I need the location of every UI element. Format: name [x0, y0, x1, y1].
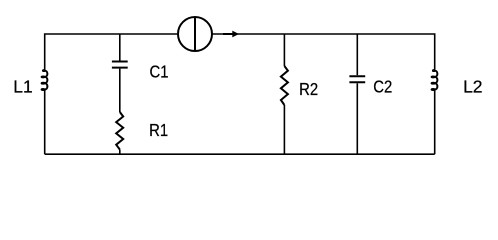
capacitor C2: [349, 76, 365, 82]
svg-text:C1: C1: [150, 62, 169, 82]
wire C2 branch top: [356, 34, 358, 75]
wire R1 bottom: [119, 150, 121, 155]
wire right-lower: [434, 90, 436, 155]
svg-text:L2: L2: [463, 77, 482, 97]
inductor L2: [432, 70, 438, 90]
svg-text:L1: L1: [13, 77, 32, 97]
wire R2 branch top: [283, 34, 285, 66]
capacitor C1: [112, 62, 128, 68]
svg-text:R1: R1: [149, 120, 168, 140]
wire top-right segment: [212, 34, 435, 71]
wire R2 bottom: [283, 105, 285, 154]
wire C2 bottom: [356, 83, 358, 154]
current source I1: [178, 17, 212, 51]
resistor R1: [116, 112, 123, 150]
wire top-left segment: [45, 34, 178, 71]
resistor R2: [281, 66, 288, 105]
inductor L1: [42, 70, 48, 90]
wire C1 to R1: [119, 69, 121, 112]
svg-text:C2: C2: [373, 76, 392, 96]
wire bottom: [45, 153, 435, 155]
current direction arrow: [223, 31, 239, 38]
wire left-lower: [44, 90, 46, 155]
wire C1 branch top: [119, 34, 121, 61]
svg-text:R2: R2: [299, 79, 318, 99]
